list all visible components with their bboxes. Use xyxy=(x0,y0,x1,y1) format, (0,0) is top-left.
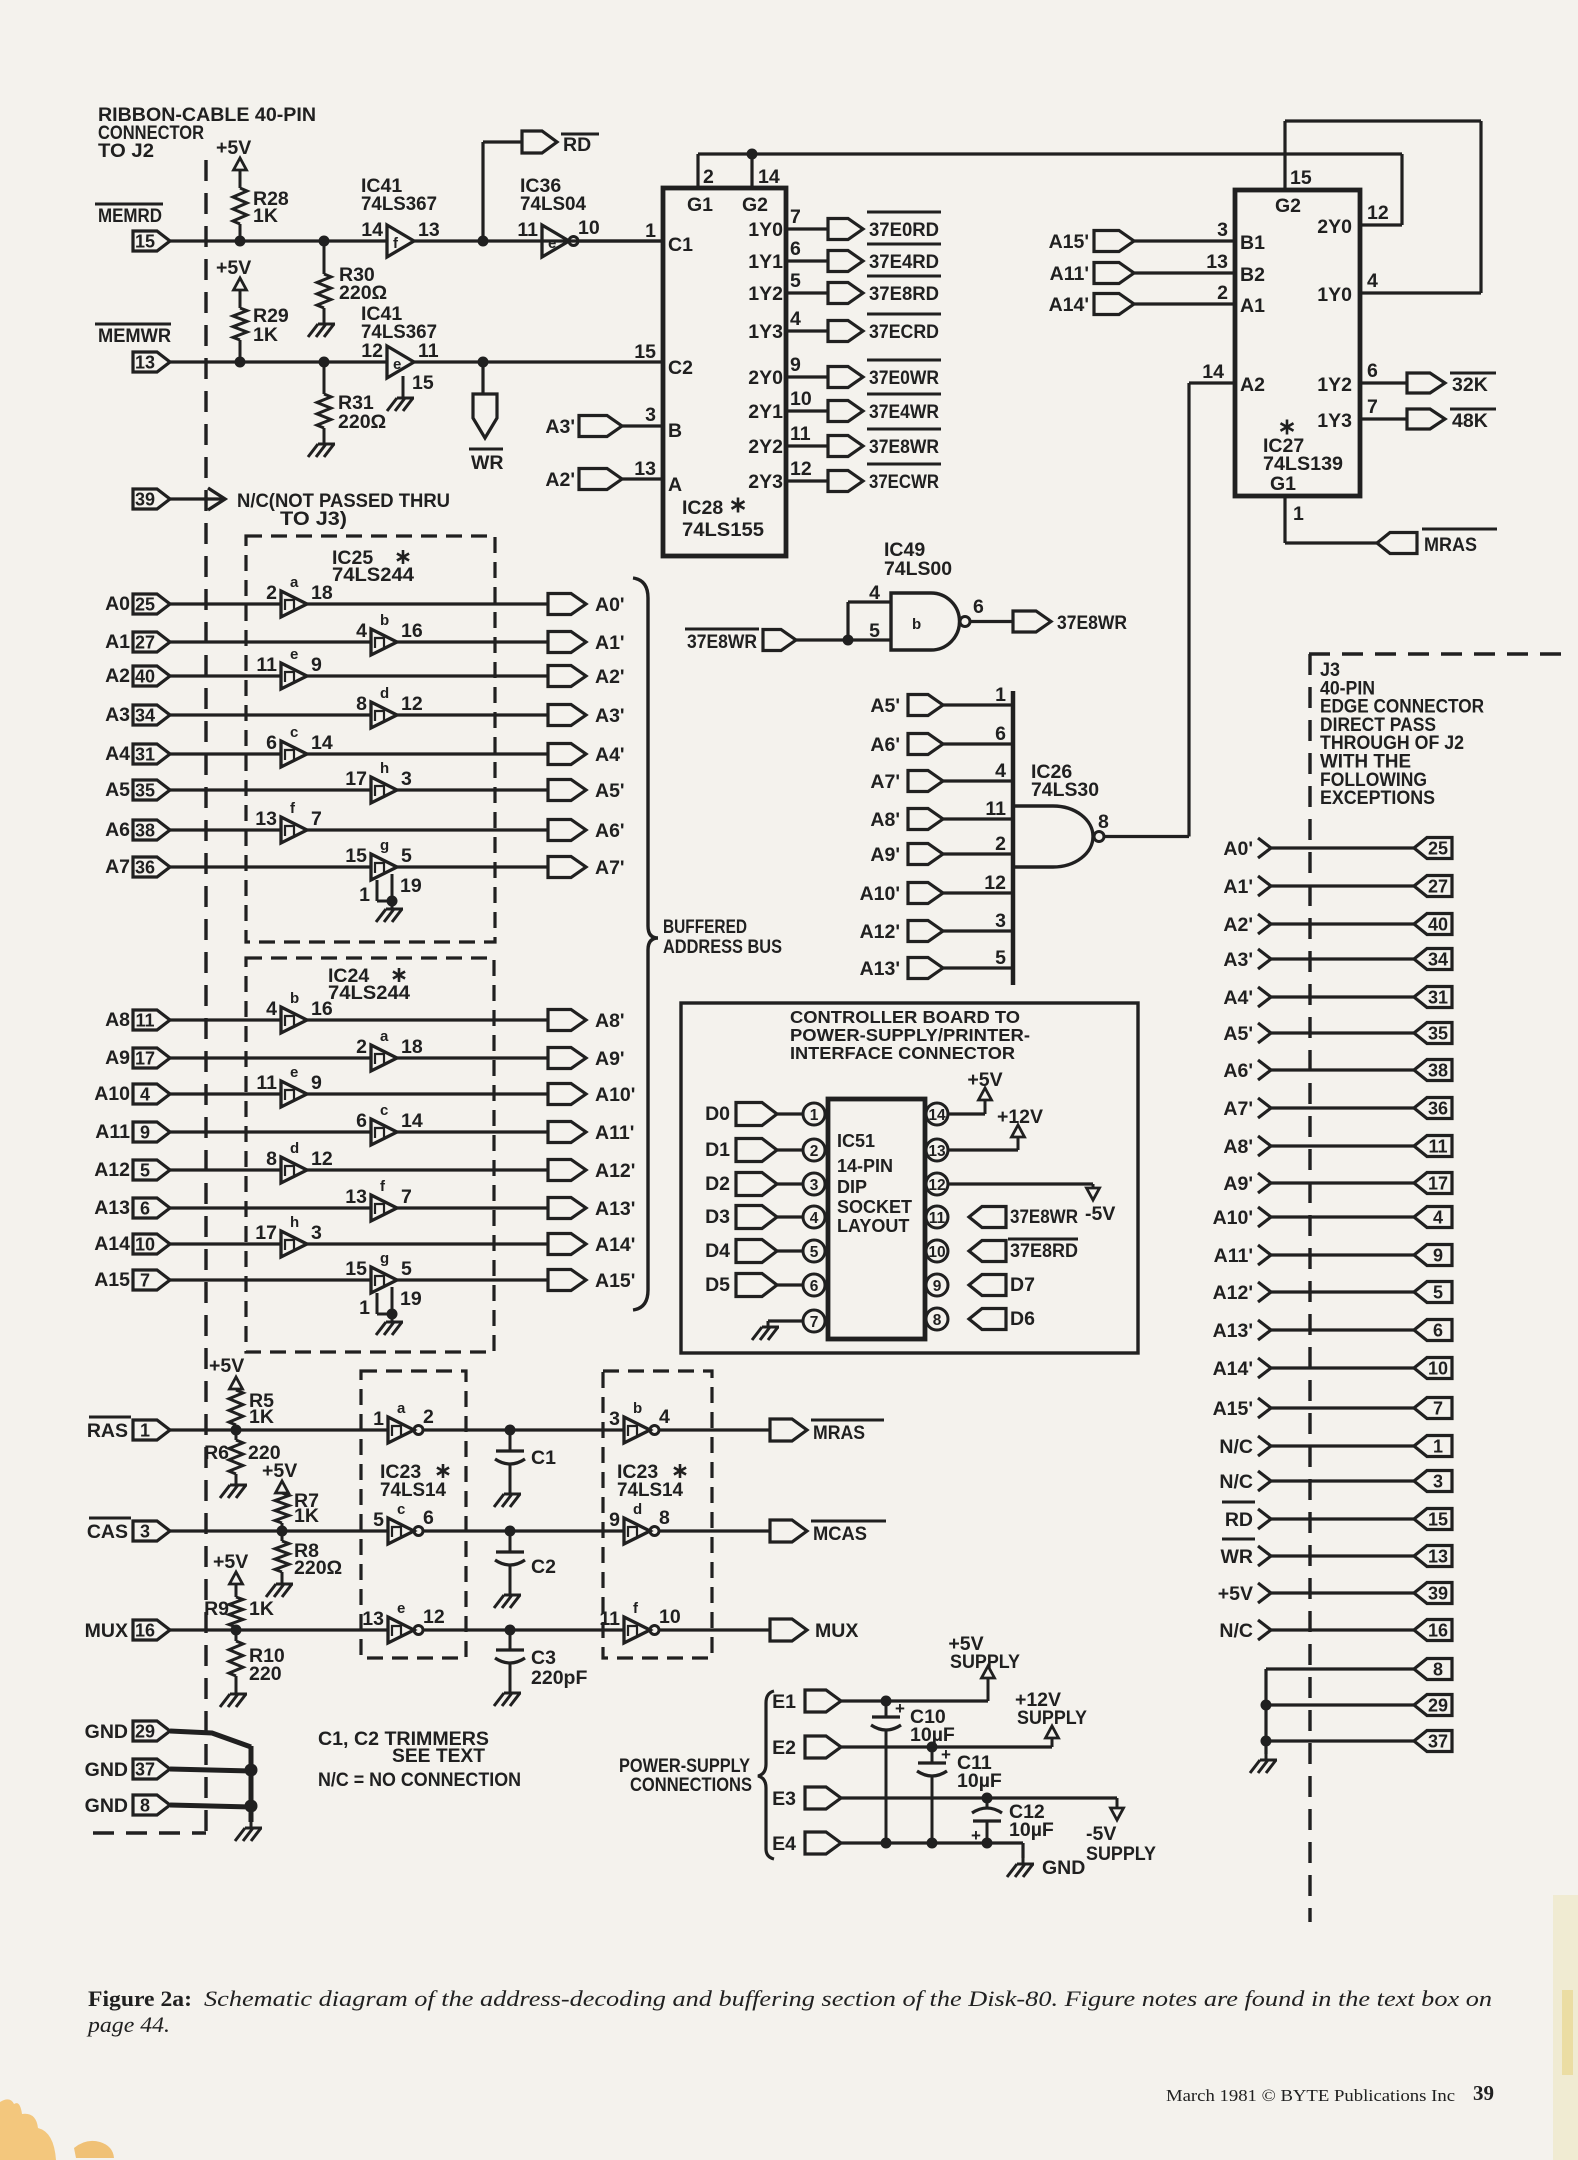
svg-text:11: 11 xyxy=(256,1072,277,1094)
svg-text:1Y0: 1Y0 xyxy=(1317,284,1352,306)
svg-text:A12': A12' xyxy=(595,1160,635,1182)
svg-text:11: 11 xyxy=(418,340,439,362)
svg-text:2Y2: 2Y2 xyxy=(748,436,783,458)
svg-text:8: 8 xyxy=(1433,1660,1443,1680)
svg-text:37E8WR: 37E8WR xyxy=(687,631,757,653)
svg-text:14: 14 xyxy=(401,1110,423,1132)
svg-text:a: a xyxy=(290,574,299,591)
svg-text:Schematic diagram of the addre: Schematic diagram of the address-decodin… xyxy=(204,1986,1492,2011)
svg-text:35: 35 xyxy=(135,781,155,801)
svg-text:A15: A15 xyxy=(94,1269,130,1291)
svg-text:74LS30: 74LS30 xyxy=(1031,779,1099,801)
svg-text:12: 12 xyxy=(790,458,812,480)
svg-text:E1: E1 xyxy=(772,1691,796,1713)
svg-text:7: 7 xyxy=(1367,396,1378,418)
svg-text:7: 7 xyxy=(401,1186,412,1208)
svg-text:A15': A15' xyxy=(595,1270,635,1292)
svg-text:15: 15 xyxy=(1428,1510,1448,1530)
svg-text:A11': A11' xyxy=(1050,263,1089,285)
svg-text:34: 34 xyxy=(135,706,155,726)
svg-text:A13': A13' xyxy=(595,1198,635,1220)
svg-text:SUPPLY: SUPPLY xyxy=(1086,1843,1156,1865)
svg-text:A14': A14' xyxy=(595,1234,635,1256)
svg-text:220Ω: 220Ω xyxy=(338,411,386,433)
svg-text:7: 7 xyxy=(790,206,801,228)
svg-text:A8': A8' xyxy=(595,1010,625,1032)
svg-text:A2': A2' xyxy=(545,469,575,491)
svg-text:A15': A15' xyxy=(1049,231,1089,253)
svg-text:A13': A13' xyxy=(860,958,900,980)
svg-text:E4: E4 xyxy=(772,1833,796,1855)
svg-text:6: 6 xyxy=(423,1507,434,1529)
svg-text:page 44.: page 44. xyxy=(86,2012,170,2037)
svg-text:MRAS: MRAS xyxy=(813,1422,865,1444)
svg-text:SUPPLY: SUPPLY xyxy=(1017,1707,1087,1729)
svg-text:G2: G2 xyxy=(742,194,768,216)
svg-text:TO J2: TO J2 xyxy=(98,140,154,162)
svg-text:3: 3 xyxy=(1217,219,1228,241)
svg-text:37: 37 xyxy=(135,1760,155,1780)
svg-text:A11: A11 xyxy=(95,1121,130,1143)
svg-text:4: 4 xyxy=(356,620,367,642)
svg-text:14: 14 xyxy=(928,1107,946,1124)
svg-text:1Y2: 1Y2 xyxy=(748,283,783,305)
svg-text:c: c xyxy=(380,1102,388,1119)
svg-text:e: e xyxy=(290,646,298,663)
svg-text:N/C = NO CONNECTION: N/C = NO CONNECTION xyxy=(318,1769,521,1791)
svg-text:6: 6 xyxy=(1433,1321,1443,1341)
svg-text:A15': A15' xyxy=(1213,1398,1253,1420)
svg-text:48K: 48K xyxy=(1452,410,1488,432)
svg-text:-5V: -5V xyxy=(1086,1823,1116,1845)
svg-text:9: 9 xyxy=(790,354,801,376)
svg-text:12: 12 xyxy=(401,693,423,715)
svg-text:9: 9 xyxy=(609,1509,620,1531)
svg-text:A5': A5' xyxy=(595,780,625,802)
svg-text:11: 11 xyxy=(790,423,811,445)
svg-text:11: 11 xyxy=(929,1210,946,1227)
svg-text:E2: E2 xyxy=(772,1737,796,1759)
svg-text:e: e xyxy=(548,235,556,252)
svg-text:C1: C1 xyxy=(531,1447,556,1469)
svg-text:1: 1 xyxy=(1433,1437,1443,1457)
svg-text:14: 14 xyxy=(311,732,333,754)
svg-text:A7': A7' xyxy=(870,771,900,793)
svg-text:4: 4 xyxy=(266,998,277,1020)
svg-text:+5V: +5V xyxy=(216,137,251,159)
svg-text:4: 4 xyxy=(995,760,1006,782)
svg-text:9: 9 xyxy=(311,1072,322,1094)
svg-text:A7: A7 xyxy=(105,856,130,878)
svg-text:A2: A2 xyxy=(105,665,130,687)
svg-text:C3: C3 xyxy=(531,1647,556,1669)
svg-text:EXCEPTIONS: EXCEPTIONS xyxy=(1320,787,1435,809)
svg-text:6: 6 xyxy=(140,1199,150,1219)
svg-text:9: 9 xyxy=(140,1123,150,1143)
svg-text:A3: A3 xyxy=(105,704,130,726)
svg-text:10µF: 10µF xyxy=(910,1724,955,1746)
svg-text:5: 5 xyxy=(373,1509,384,1531)
svg-text:A5': A5' xyxy=(1223,1023,1253,1045)
svg-text:1: 1 xyxy=(140,1421,150,1441)
svg-text:17: 17 xyxy=(345,768,367,790)
svg-text:38: 38 xyxy=(1428,1061,1448,1081)
svg-text:A11': A11' xyxy=(1214,1245,1253,1267)
svg-text:e: e xyxy=(397,1600,405,1617)
svg-text:A12': A12' xyxy=(860,921,900,943)
svg-text:3: 3 xyxy=(1433,1472,1443,1492)
svg-text:b: b xyxy=(633,1400,642,1417)
svg-text:D0: D0 xyxy=(705,1103,730,1125)
svg-text:13: 13 xyxy=(928,1143,946,1160)
svg-text:A0: A0 xyxy=(105,593,130,615)
svg-text:37E8WR: 37E8WR xyxy=(1057,612,1127,634)
svg-text:10: 10 xyxy=(659,1606,681,1628)
svg-text:A4': A4' xyxy=(1223,987,1253,1009)
svg-text:GND: GND xyxy=(85,1721,128,1743)
svg-text:40: 40 xyxy=(1428,915,1448,935)
svg-text:Figure 2a:: Figure 2a: xyxy=(88,1986,192,2011)
svg-text:34: 34 xyxy=(1428,950,1448,970)
svg-text:D1: D1 xyxy=(705,1139,730,1161)
svg-text:39: 39 xyxy=(1428,1584,1448,1604)
svg-text:MEMRD: MEMRD xyxy=(98,205,162,227)
svg-text:A9': A9' xyxy=(595,1048,625,1070)
svg-text:CONNECTIONS: CONNECTIONS xyxy=(630,1774,752,1796)
svg-text:8: 8 xyxy=(1098,811,1109,833)
svg-text:A5': A5' xyxy=(870,695,900,717)
svg-text:12: 12 xyxy=(928,1177,945,1194)
svg-text:+: + xyxy=(971,1826,981,1845)
svg-text:RD: RD xyxy=(1225,1509,1253,1531)
svg-text:12: 12 xyxy=(984,872,1006,894)
svg-text:7: 7 xyxy=(140,1271,150,1291)
svg-text:14: 14 xyxy=(361,219,383,241)
svg-text:18: 18 xyxy=(401,1036,423,1058)
svg-text:D4: D4 xyxy=(705,1240,730,1262)
svg-text:3: 3 xyxy=(140,1522,150,1542)
svg-text:a: a xyxy=(397,1400,406,1417)
svg-text:7: 7 xyxy=(311,808,322,830)
svg-text:LAYOUT: LAYOUT xyxy=(837,1216,909,1236)
svg-text:3: 3 xyxy=(401,768,412,790)
svg-text:A2': A2' xyxy=(595,666,625,688)
svg-text:A13: A13 xyxy=(94,1197,130,1219)
svg-text:74LS139: 74LS139 xyxy=(1263,453,1343,475)
svg-text:6: 6 xyxy=(973,596,984,618)
svg-text:-5V: -5V xyxy=(1085,1203,1115,1225)
svg-text:37E0WR: 37E0WR xyxy=(869,367,939,389)
svg-text:1Y1: 1Y1 xyxy=(748,251,783,273)
svg-text:15: 15 xyxy=(345,845,367,867)
svg-text:1: 1 xyxy=(995,684,1006,706)
svg-text:3: 3 xyxy=(810,1177,819,1194)
svg-text:5: 5 xyxy=(1433,1283,1443,1303)
svg-text:d: d xyxy=(290,1140,299,1157)
svg-text:13: 13 xyxy=(135,353,155,373)
svg-text:RAS: RAS xyxy=(87,1420,128,1442)
svg-text:+5V: +5V xyxy=(209,1355,244,1377)
svg-text:16: 16 xyxy=(135,1621,155,1641)
svg-text:5: 5 xyxy=(401,845,412,867)
svg-text:29: 29 xyxy=(135,1722,155,1742)
svg-text:11: 11 xyxy=(517,219,538,241)
svg-text:POWER-SUPPLY/PRINTER-: POWER-SUPPLY/PRINTER- xyxy=(790,1025,1030,1045)
svg-text:TO J3): TO J3) xyxy=(280,508,347,530)
svg-text:A6': A6' xyxy=(595,820,625,842)
svg-text:DIP: DIP xyxy=(837,1177,867,1197)
svg-text:MRAS: MRAS xyxy=(1424,534,1477,556)
svg-text:3: 3 xyxy=(645,404,656,426)
svg-text:A7': A7' xyxy=(1223,1098,1253,1120)
svg-text:5: 5 xyxy=(995,947,1006,969)
svg-text:1K: 1K xyxy=(253,324,278,346)
svg-text:74LS04: 74LS04 xyxy=(520,193,586,215)
svg-text:A10': A10' xyxy=(595,1084,635,1106)
svg-text:2Y3: 2Y3 xyxy=(748,471,783,493)
svg-text:A6: A6 xyxy=(105,819,130,841)
svg-text:A8': A8' xyxy=(1223,1136,1253,1158)
svg-text:C1: C1 xyxy=(668,234,693,256)
svg-text:GND: GND xyxy=(85,1759,128,1781)
svg-text:1Y3: 1Y3 xyxy=(1317,410,1352,432)
svg-text:9: 9 xyxy=(933,1278,942,1295)
svg-text:17: 17 xyxy=(255,1222,277,1244)
svg-text:2: 2 xyxy=(703,166,714,188)
svg-text:N/C: N/C xyxy=(1219,1471,1253,1493)
svg-text:b: b xyxy=(290,990,299,1007)
svg-text:A2': A2' xyxy=(1223,914,1253,936)
svg-text:WR: WR xyxy=(1221,1546,1254,1568)
svg-text:37E8RD: 37E8RD xyxy=(1010,1240,1078,1262)
svg-text:11: 11 xyxy=(1428,1137,1447,1157)
svg-text:A12': A12' xyxy=(1213,1282,1253,1304)
svg-text:N/C: N/C xyxy=(1219,1620,1253,1642)
svg-text:11: 11 xyxy=(135,1011,154,1031)
svg-text:5: 5 xyxy=(810,1244,819,1261)
svg-text:+5V: +5V xyxy=(967,1069,1002,1091)
svg-text:D6: D6 xyxy=(1010,1308,1035,1330)
svg-text:74LS14: 74LS14 xyxy=(617,1479,683,1501)
svg-text:MUX: MUX xyxy=(815,1620,858,1642)
svg-text:3: 3 xyxy=(609,1408,620,1430)
svg-text:13: 13 xyxy=(255,808,277,830)
svg-text:35: 35 xyxy=(1428,1024,1448,1044)
svg-text:15: 15 xyxy=(634,341,656,363)
svg-text:17: 17 xyxy=(1428,1174,1448,1194)
svg-text:A9: A9 xyxy=(105,1047,130,1069)
svg-text:220: 220 xyxy=(249,1663,282,1685)
svg-text:16: 16 xyxy=(311,998,333,1020)
svg-text:1K: 1K xyxy=(294,1505,319,1527)
svg-text:9: 9 xyxy=(311,654,322,676)
svg-text:13: 13 xyxy=(1206,251,1228,273)
svg-text:2: 2 xyxy=(1217,282,1228,304)
svg-text:+12V: +12V xyxy=(997,1106,1043,1128)
svg-text:19: 19 xyxy=(400,1288,422,1310)
svg-text:d: d xyxy=(380,685,389,702)
svg-text:A7': A7' xyxy=(595,857,625,879)
svg-text:4: 4 xyxy=(1367,270,1378,292)
svg-text:8: 8 xyxy=(266,1148,277,1170)
svg-text:SUPPLY: SUPPLY xyxy=(950,1651,1020,1673)
svg-text:A11': A11' xyxy=(595,1122,634,1144)
svg-text:A14': A14' xyxy=(1213,1358,1253,1380)
svg-text:15: 15 xyxy=(1290,167,1312,189)
svg-text:14-PIN: 14-PIN xyxy=(837,1156,893,1176)
svg-text:4: 4 xyxy=(1433,1208,1443,1228)
svg-text:c: c xyxy=(290,724,298,741)
svg-text:R6: R6 xyxy=(204,1442,229,1464)
svg-text:16: 16 xyxy=(1428,1621,1448,1641)
svg-text:+5V: +5V xyxy=(213,1551,248,1573)
svg-text:B1: B1 xyxy=(1240,232,1265,254)
svg-text:6: 6 xyxy=(266,732,277,754)
svg-text:C2: C2 xyxy=(531,1556,556,1578)
svg-text:WR: WR xyxy=(471,452,504,474)
svg-text:b: b xyxy=(380,612,389,629)
svg-text:1: 1 xyxy=(359,1297,370,1319)
svg-text:1Y3: 1Y3 xyxy=(748,321,783,343)
svg-text:RD: RD xyxy=(563,134,591,156)
svg-text:+: + xyxy=(895,1699,905,1718)
svg-text:37ECRD: 37ECRD xyxy=(869,321,939,343)
svg-text:13: 13 xyxy=(418,219,440,241)
svg-text:A6': A6' xyxy=(1223,1060,1253,1082)
svg-text:A1: A1 xyxy=(1240,295,1265,317)
svg-text:3: 3 xyxy=(311,1222,322,1244)
svg-text:37: 37 xyxy=(1428,1732,1448,1752)
svg-text:25: 25 xyxy=(1428,839,1448,859)
svg-text:5: 5 xyxy=(401,1258,412,1280)
svg-text:A9': A9' xyxy=(1223,1173,1253,1195)
svg-text:40: 40 xyxy=(135,667,155,687)
svg-text:+5V: +5V xyxy=(262,1460,297,1482)
svg-text:A12: A12 xyxy=(94,1159,130,1181)
svg-text:+5V: +5V xyxy=(1218,1583,1253,1605)
svg-text:37E8RD: 37E8RD xyxy=(869,283,939,305)
svg-text:4: 4 xyxy=(140,1085,150,1105)
svg-text:A3': A3' xyxy=(1223,949,1253,971)
svg-text:g: g xyxy=(380,1250,389,1267)
svg-text:10: 10 xyxy=(1428,1359,1448,1379)
svg-text:g: g xyxy=(380,837,389,854)
svg-text:220Ω: 220Ω xyxy=(294,1557,342,1579)
svg-text:74LS14: 74LS14 xyxy=(380,1479,446,1501)
svg-text:A1': A1' xyxy=(1223,876,1253,898)
svg-text:12: 12 xyxy=(1367,202,1389,224)
svg-text:36: 36 xyxy=(135,858,155,878)
svg-text:39: 39 xyxy=(1473,2081,1494,2105)
svg-text:220Ω: 220Ω xyxy=(339,282,387,304)
svg-text:37E4WR: 37E4WR xyxy=(869,401,939,423)
svg-text:39: 39 xyxy=(135,490,155,510)
svg-text:3: 3 xyxy=(995,910,1006,932)
svg-text:A0': A0' xyxy=(595,594,625,616)
svg-text:B: B xyxy=(668,420,682,442)
svg-text:1K: 1K xyxy=(249,1598,274,1620)
svg-text:A1': A1' xyxy=(595,632,625,654)
svg-text:D3: D3 xyxy=(705,1206,730,1228)
svg-text:A3': A3' xyxy=(545,416,575,438)
svg-text:E3: E3 xyxy=(772,1788,796,1810)
svg-text:220pF: 220pF xyxy=(531,1667,587,1689)
svg-text:10µF: 10µF xyxy=(957,1770,1002,1792)
svg-text:A1: A1 xyxy=(105,631,130,653)
svg-text:A10': A10' xyxy=(1213,1207,1253,1229)
svg-text:6: 6 xyxy=(790,238,801,260)
svg-text:1: 1 xyxy=(373,1408,384,1430)
svg-text:74LS367: 74LS367 xyxy=(361,193,437,215)
svg-text:1: 1 xyxy=(810,1107,819,1124)
svg-text:31: 31 xyxy=(135,745,155,765)
svg-text:2Y0: 2Y0 xyxy=(1317,216,1352,238)
svg-text:36: 36 xyxy=(1428,1099,1448,1119)
svg-text:27: 27 xyxy=(135,633,155,653)
svg-text:2: 2 xyxy=(810,1143,819,1160)
svg-text:A3': A3' xyxy=(595,705,625,727)
svg-text:25: 25 xyxy=(135,595,155,615)
svg-text:A9': A9' xyxy=(870,844,900,866)
svg-text:1K: 1K xyxy=(249,1406,274,1428)
svg-text:16: 16 xyxy=(401,620,423,642)
svg-text:G1: G1 xyxy=(1270,473,1296,495)
svg-text:13: 13 xyxy=(345,1186,367,1208)
svg-text:G2: G2 xyxy=(1275,195,1301,217)
svg-text:8: 8 xyxy=(356,693,367,715)
svg-text:74LS155: 74LS155 xyxy=(682,519,764,541)
svg-text:1Y2: 1Y2 xyxy=(1317,374,1352,396)
svg-text:CAS: CAS xyxy=(87,1521,128,1543)
svg-text:6: 6 xyxy=(1367,360,1378,382)
svg-text:32K: 32K xyxy=(1452,374,1488,396)
svg-text:CONTROLLER BOARD TO: CONTROLLER BOARD TO xyxy=(790,1007,1020,1027)
svg-text:10: 10 xyxy=(578,217,600,239)
svg-text:D2: D2 xyxy=(705,1173,730,1195)
svg-text:March 1981 © BYTE Publications: March 1981 © BYTE Publications Inc xyxy=(1166,2086,1455,2105)
svg-text:31: 31 xyxy=(1428,988,1448,1008)
svg-text:A4: A4 xyxy=(105,743,130,765)
svg-text:10: 10 xyxy=(135,1235,155,1255)
svg-text:A8: A8 xyxy=(105,1009,130,1031)
svg-text:2: 2 xyxy=(356,1036,367,1058)
svg-text:11: 11 xyxy=(599,1608,620,1630)
svg-text:SOCKET: SOCKET xyxy=(837,1197,912,1217)
svg-text:37E8WR: 37E8WR xyxy=(869,436,939,458)
svg-text:a: a xyxy=(380,1028,389,1045)
svg-text:8: 8 xyxy=(140,1796,150,1816)
svg-text:2: 2 xyxy=(266,582,277,604)
svg-text:2: 2 xyxy=(995,833,1006,855)
svg-text:R9: R9 xyxy=(204,1598,229,1620)
svg-text:A5: A5 xyxy=(105,779,130,801)
svg-text:A2: A2 xyxy=(1240,374,1265,396)
svg-text:27: 27 xyxy=(1428,877,1448,897)
svg-text:A0': A0' xyxy=(1223,838,1253,860)
svg-text:15: 15 xyxy=(345,1258,367,1280)
svg-text:29: 29 xyxy=(1428,1696,1448,1716)
svg-text:A: A xyxy=(668,474,682,496)
svg-text:BUFFERED: BUFFERED xyxy=(663,916,747,938)
svg-text:11: 11 xyxy=(985,798,1006,820)
svg-text:17: 17 xyxy=(135,1049,155,1069)
svg-text:6: 6 xyxy=(995,723,1006,745)
svg-text:h: h xyxy=(380,760,389,777)
svg-text:13: 13 xyxy=(1428,1547,1448,1567)
svg-text:15: 15 xyxy=(412,372,434,394)
svg-text:MUX: MUX xyxy=(85,1620,128,1642)
svg-text:GND: GND xyxy=(1042,1857,1085,1879)
